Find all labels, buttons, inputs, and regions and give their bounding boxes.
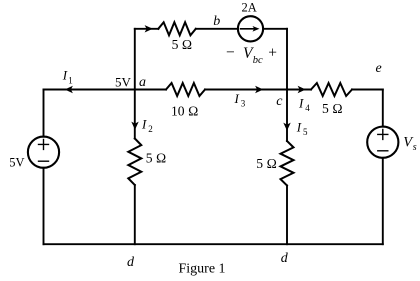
svg-text:4: 4 <box>305 103 310 113</box>
svg-text:I: I <box>62 68 68 83</box>
svg-text:10 Ω: 10 Ω <box>171 103 198 118</box>
svg-text:1: 1 <box>68 76 73 86</box>
svg-text:I: I <box>296 120 302 135</box>
svg-text:I: I <box>234 91 240 106</box>
svg-text:5 Ω: 5 Ω <box>256 156 277 171</box>
svg-text:a: a <box>139 75 146 90</box>
svg-text:d: d <box>281 251 289 266</box>
svg-text:5: 5 <box>303 127 308 137</box>
svg-text:5 Ω: 5 Ω <box>146 151 167 166</box>
svg-text:2: 2 <box>148 124 153 134</box>
svg-text:c: c <box>276 94 283 109</box>
svg-text:Figure 1: Figure 1 <box>179 262 226 277</box>
svg-text:5V: 5V <box>115 75 132 90</box>
svg-text:5 Ω: 5 Ω <box>172 37 193 52</box>
svg-text:bc: bc <box>253 55 263 66</box>
svg-text:I: I <box>141 117 147 132</box>
svg-text:+: + <box>268 45 277 62</box>
svg-text:−: − <box>226 44 235 61</box>
svg-text:e: e <box>376 61 382 76</box>
svg-text:d: d <box>127 255 135 270</box>
svg-text:s: s <box>413 142 417 153</box>
svg-text:5 Ω: 5 Ω <box>322 101 343 116</box>
svg-text:b: b <box>213 14 220 29</box>
svg-text:5V: 5V <box>9 156 24 170</box>
svg-text:2A: 2A <box>242 1 257 15</box>
svg-text:I: I <box>298 95 304 110</box>
svg-text:3: 3 <box>241 98 246 108</box>
